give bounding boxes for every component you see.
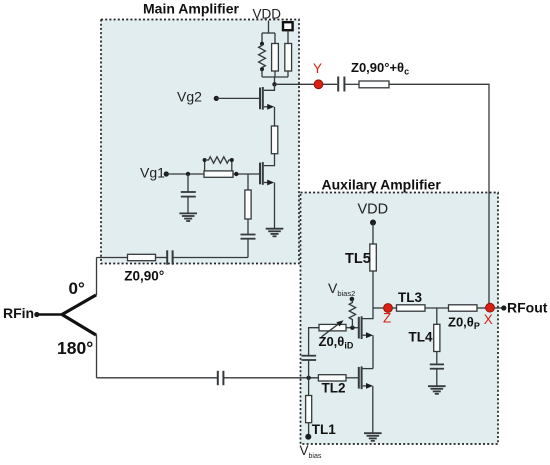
transmission line gate TL [204,171,233,177]
svg-text:0°: 0° [69,279,85,298]
svg-text:180°: 180° [57,338,93,358]
svg-text:Vg2: Vg2 [177,88,202,104]
svg-text:TL5: TL5 [345,251,371,267]
transmission line TL2 [318,375,346,381]
wire bottom bus [262,76,288,78]
wire C3 to input line [247,239,249,258]
wire interstage to Q2 drain [264,154,275,166]
svg-text:TL4: TL4 [409,330,433,345]
ground (TL4) [428,386,446,394]
svg-text:Vbias: Vbias [300,443,322,460]
transmission line TL4 [434,324,440,351]
resistor R3 (bias2) [349,300,355,328]
wire to resistor R1 [261,33,263,44]
wire 0deg riser [96,258,98,296]
wire Z0thetaID to gate Q3 [346,327,358,329]
junction dot bias2 [350,326,354,330]
wire TL5 to Z row [372,271,374,308]
wire input 0deg run [97,257,128,259]
junction dot drain node [272,82,276,86]
wire branch down [247,174,249,190]
wire TL4 to C7 [436,352,438,365]
node dot resistor left [203,158,207,162]
ground (Q2 source) [266,229,284,237]
wire X to RFout [494,307,502,309]
node dot resistor right [230,158,234,162]
splitter arm 0deg [62,295,96,315]
svg-text:RFout: RFout [507,300,548,316]
capacitor C6 (shunt left aux) [302,356,317,360]
transistor Q3 (aux cascode top) [359,308,373,369]
wire to capacitor C4 [156,257,168,259]
transmission line input stub [245,190,251,219]
transmission line TL1 [306,396,312,423]
transmission line Z0,thetaID [319,324,346,331]
junction dot aux input [306,376,310,380]
wire C1 to TL [344,83,359,85]
wire TL1 branch [308,378,310,396]
wire branch up to C6 [308,360,310,378]
wire stub to C3 [247,219,249,235]
svg-text:Main Amplifier: Main Amplifier [143,1,239,17]
svg-text:TL3: TL3 [398,290,422,305]
transmission line interstage [271,126,277,154]
wire to capacitor C2 [187,174,189,192]
wire pad to TLb [287,31,289,44]
svg-text:Z0,90°: Z0,90° [124,269,164,284]
svg-text:Vg1: Vg1 [140,164,165,180]
capacitor C4 (series) [166,250,168,264]
main amplifier dashed box [101,20,299,264]
terminal dot Vg2 [214,96,219,101]
wire TL4 branch [436,308,438,324]
svg-text:RFin: RFin [3,305,34,321]
terminal dot RFout [501,305,506,310]
wire VDD to TL5 [372,224,374,245]
node dot R1 top [260,42,264,46]
transmission line Z0,90+thetac [359,81,389,88]
node dot R1 bottom [260,67,264,71]
node Z [384,304,393,313]
auxiliary amplifier dashed box [301,193,499,445]
svg-text:Auxilary Amplifier: Auxilary Amplifier [322,177,442,193]
wire Vg1 to gate [166,173,259,175]
wire C4 to branch [173,257,248,259]
capacitor C3 (series vertical) [241,235,256,239]
transistor Q1 (main cascode top) [260,84,275,126]
svg-text:VDD: VDD [253,6,282,21]
wire VDD stub [268,21,270,34]
wire split bar [262,32,275,34]
wire R1 to bus [261,69,263,77]
svg-text:VDD: VDD [358,202,389,218]
wire C5 to aux input [223,377,318,379]
tuning arrow Z0,thetaID [322,323,340,337]
ground (C2) [179,213,197,221]
svg-text:Y: Y [313,61,322,76]
node X [486,303,495,312]
wire drain node to Y [275,83,338,85]
resistor R2 (parallel) [205,157,232,163]
capacitor C7 (shunt TL4) [430,364,444,368]
ground (Q4 source) [364,433,382,441]
svg-text:TL2: TL2 [322,381,346,396]
wire top right run [389,84,489,307]
terminal dot Vbias [305,434,311,440]
transmission line stub TLa [272,44,279,72]
wire TL3 to Z0thetaP [425,307,449,309]
wire C6 to Z0thetaID [309,328,319,356]
wire Vg2 to gate [216,97,259,99]
capacitor C5 (series 180 path) [217,371,219,385]
wire TLa to bus [274,71,276,77]
stub right to parallel resistor [231,160,233,171]
wire bus to drain node [274,77,276,84]
wire C7 to ground [436,369,438,386]
transmission line TL5 [370,244,377,271]
resistor R1 (bias) [259,44,266,69]
transistor Q4 (aux cascode bottom) [346,366,373,433]
svg-text:TL1: TL1 [312,422,336,437]
wire TLb to bus [287,71,289,77]
terminal dot RFin [34,312,39,317]
splitter feed [37,313,62,316]
pad square (bias feed) [283,22,293,30]
capacitor C2 (shunt) [181,192,196,197]
wire Z row left [373,307,384,309]
wire Z0thetaP to X [477,307,486,309]
svg-text:X: X [484,312,493,327]
capacitor C1 (series at Y) [337,77,339,92]
wire Q3 source to Q4 drain [363,368,373,370]
transmission line Z0,thetaP [449,305,478,311]
svg-text:Z0,90°+θc: Z0,90°+θc [351,60,409,77]
wire 180deg run [97,377,218,379]
junction dot gate side [234,172,238,176]
wire C2 to ground [187,197,189,214]
terminal dot Vg1 [164,171,169,176]
wire TL1 to Vbias [308,423,310,436]
wire to TL stub (middle) [274,33,276,44]
junction dot (Vg1 cap) [186,172,190,176]
transmission line Z0,90 [128,254,156,260]
transistor Q2 (main cascode bottom) [260,162,275,228]
svg-text:Z: Z [383,311,391,326]
terminal dot Vbias2 [350,297,355,302]
wire Z to TL3 [392,307,397,309]
node Y [314,80,323,89]
wire 180deg dropper [96,335,98,378]
terminal dot VDD aux [370,220,376,226]
splitter arm 180deg [62,315,96,336]
stub left to parallel resistor [204,160,206,171]
transmission line stub TLb [285,44,292,72]
transmission line TL3 [397,305,426,311]
